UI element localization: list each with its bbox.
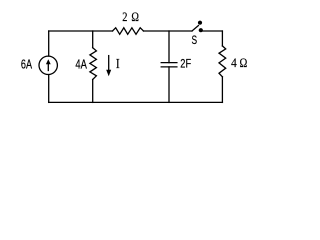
capacitor 2F top plate (161, 62, 177, 64)
resistor 4A zigzag (90, 48, 97, 80)
wire top middle segment (144, 30, 193, 32)
svg-text:Ω: Ω (131, 9, 139, 24)
wire capacitor branch lower (168, 67, 170, 103)
wire branch middle vertical upper (92, 31, 94, 48)
switch lower contact dot (199, 28, 203, 32)
switch upper contact dot (198, 21, 202, 25)
wire right vertical upper (221, 31, 223, 46)
wire right vertical lower (221, 77, 223, 103)
wire left vertical upper (48, 31, 50, 56)
wire capacitor branch upper (168, 31, 170, 63)
current arrow I head (106, 70, 111, 77)
resistor R 4 ohm zigzag (219, 46, 226, 77)
current source 6A circle (39, 56, 57, 74)
svg-text:S: S (192, 33, 198, 47)
wire top left segment (49, 30, 113, 32)
svg-text:4: 4 (231, 55, 237, 70)
capacitor 2F bottom plate (161, 66, 177, 68)
svg-text:Ω: Ω (240, 55, 248, 70)
svg-text:2F: 2F (180, 57, 191, 71)
current arrow I shaft (108, 56, 110, 71)
wire branch middle vertical lower (92, 80, 94, 103)
svg-text:4A: 4A (75, 58, 87, 72)
svg-text:2: 2 (122, 9, 127, 24)
current source arrow head (46, 59, 51, 64)
svg-text:6A: 6A (21, 58, 33, 72)
switch S blade (192, 26, 198, 32)
current source arrow shaft (47, 63, 49, 71)
resistor 2 ohm zigzag (113, 28, 144, 35)
wire top right segment (203, 30, 223, 32)
wire bottom (49, 101, 223, 103)
svg-text:I: I (116, 56, 120, 71)
wire left vertical lower (48, 75, 50, 103)
